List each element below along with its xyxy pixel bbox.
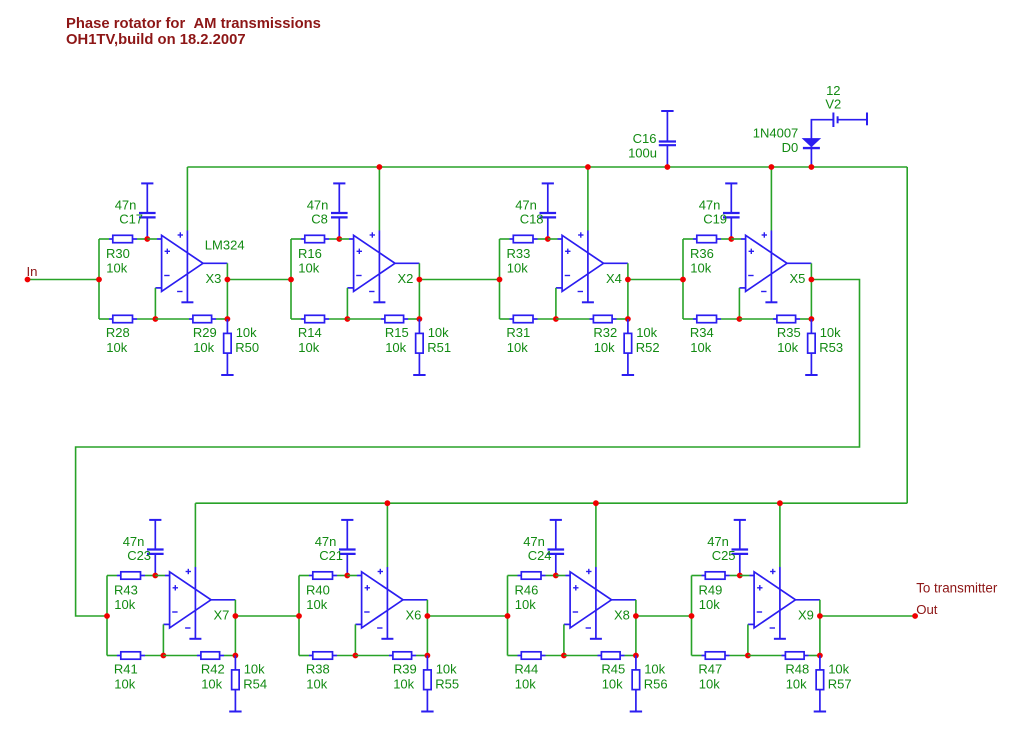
wire: -in node to R48 [748, 655, 782, 657]
junction: R40/C21/+in node [344, 573, 350, 579]
junction: X4 output node [625, 277, 631, 283]
wire: X7 -in node vertical [162, 624, 164, 655]
wire: X8 input to R44 [508, 655, 518, 657]
wire: op-amp X7 output (blue) [211, 599, 235, 601]
wire: V2 to diode (blue) [811, 120, 833, 167]
wire: X2 input to R16 [291, 238, 301, 240]
svg-text:R35: R35 [777, 325, 801, 340]
junction: X6 output node [425, 613, 431, 619]
node In terminal [25, 277, 31, 283]
junction: X8 input node [505, 613, 511, 619]
wire: X3 -in node vertical [154, 288, 156, 319]
resistor R47 [702, 652, 730, 659]
svg-text:10k: 10k [602, 677, 623, 692]
wire: X9 input to R47 [692, 655, 702, 657]
wire: R33 to node [538, 238, 548, 240]
wire: X4 output vertical [627, 263, 629, 319]
svg-text:10k: 10k [106, 340, 127, 355]
svg-text:10k: 10k [306, 677, 327, 692]
junction: X3 input node [96, 277, 102, 283]
wire: X6 input to R40 [299, 575, 309, 577]
junction: R49/C25/+in node [737, 573, 743, 579]
svg-text:R48: R48 [785, 662, 809, 677]
junction: -in/R28/R29 node [153, 316, 159, 322]
op-amp X6 power rail (blue) [386, 567, 388, 638]
capacitor C8 top terminal bar [333, 182, 345, 184]
capacitor C18 [540, 183, 557, 239]
svg-text:10k: 10k [201, 677, 222, 692]
junction: X2 supply tap on bus [377, 164, 383, 170]
op-amp X4 [556, 232, 604, 291]
wire: node to op-amp +in [347, 575, 357, 577]
svg-text:R49: R49 [699, 582, 723, 597]
svg-text:47n: 47n [307, 197, 329, 212]
svg-text:1N4007: 1N4007 [753, 126, 799, 141]
wire: X6 input node vertical [298, 576, 300, 656]
wire: X9 input to R49 [692, 575, 702, 577]
svg-text:X6: X6 [406, 608, 422, 623]
junction: X6 input node [296, 613, 302, 619]
resistor R57 [816, 656, 824, 711]
capacitor C25 top terminal bar [734, 519, 746, 521]
capacitor C19 [723, 183, 740, 239]
resistor R30 [109, 235, 137, 242]
junction: -in/R38/R39 node [353, 653, 359, 659]
wire: X4 input to R31 [500, 318, 510, 320]
svg-text:R14: R14 [298, 325, 322, 340]
svg-text:C24: C24 [528, 548, 552, 563]
resistor R14 [301, 315, 329, 322]
wire: R49 to node [730, 575, 740, 577]
junction: R35/R53/output node [809, 316, 815, 322]
junction: X5 input node [680, 277, 686, 283]
junction: -in/R31/R32 node [553, 316, 559, 322]
capacitor C21 [339, 520, 356, 576]
junction: -in/R41/R42 node [161, 653, 167, 659]
svg-text:V2: V2 [825, 96, 841, 111]
ground (R53) [805, 374, 817, 376]
wire: X5 input to R34 [683, 318, 693, 320]
svg-text:R38: R38 [306, 662, 330, 677]
wire: top V+ bus [187, 166, 907, 168]
wire: X7 input to R43 [107, 575, 117, 577]
wire: -in node to R45 [564, 655, 598, 657]
resistor R15 [381, 315, 408, 322]
svg-text:10k: 10k [699, 597, 720, 612]
svg-text:C17: C17 [119, 212, 143, 227]
svg-text:10k: 10k [393, 677, 414, 692]
wire: X7 output to X6 stage input [235, 615, 299, 617]
wire: bottom V+ bus [195, 502, 907, 504]
resistor R40 [309, 572, 337, 579]
wire: R47 to -in node [730, 655, 748, 657]
wire: X9 input node vertical [691, 576, 693, 656]
capacitor C24 top terminal bar [550, 519, 562, 521]
svg-text:R39: R39 [393, 662, 417, 677]
wire: R15 to output node [408, 318, 419, 320]
wire: op-amp X4 output (blue) [604, 262, 628, 264]
svg-text:10k: 10k [786, 677, 807, 692]
wire: R36 to node [721, 238, 731, 240]
svg-text:10k: 10k [244, 662, 265, 677]
svg-text:10k: 10k [306, 597, 327, 612]
wire: -in node to R35 [739, 318, 773, 320]
svg-text:R29: R29 [193, 325, 217, 340]
svg-text:R54: R54 [243, 677, 267, 692]
junction: R46/C24/+in node [553, 573, 559, 579]
wire: node to op-amp +in [339, 238, 349, 240]
svg-text:C16: C16 [633, 131, 657, 146]
wire: X6 output to X8 stage input [427, 615, 507, 617]
resistor R52 [624, 319, 632, 374]
svg-text:10k: 10k [428, 325, 449, 340]
wire: X4 output to X5 stage input [628, 279, 683, 281]
wire: X3 input to R28 [99, 318, 109, 320]
resistor R36 [693, 235, 721, 242]
svg-text:10k: 10k [507, 260, 528, 275]
junction: X6 supply tap on bus [385, 500, 391, 506]
ground (op-amp X8 V-) [590, 638, 602, 640]
junction: -in/R44/R45 node [561, 653, 567, 659]
wire: op-amp X6 V+ supply from bus [386, 503, 388, 567]
svg-text:X7: X7 [214, 608, 230, 623]
svg-text:Out: Out [916, 602, 938, 617]
svg-text:10k: 10k [594, 340, 615, 355]
wire: R28 to -in node [137, 318, 155, 320]
svg-text:R56: R56 [644, 677, 668, 692]
junction: X9 output node [817, 613, 823, 619]
svg-text:10k: 10k [515, 597, 536, 612]
svg-text:R34: R34 [690, 325, 714, 340]
op-amp X2 [347, 232, 395, 291]
svg-text:R32: R32 [593, 325, 617, 340]
wire: X3 output to X2 stage input [227, 279, 291, 281]
junction: X5 output node [809, 277, 815, 283]
svg-text:R45: R45 [601, 662, 625, 677]
junction: D0 on top bus [809, 164, 815, 170]
capacitor C17 [139, 183, 156, 239]
junction: R32/R52/output node [625, 316, 631, 322]
wire: R45 to output node [625, 655, 636, 657]
resistor R42 [197, 652, 224, 659]
wire: X2 -in node vertical [346, 288, 348, 319]
svg-text:10k: 10k [236, 325, 257, 340]
wire: X8 output to X9 stage input [636, 615, 692, 617]
wire: X6 -in node vertical [354, 624, 356, 655]
wire: X7 output vertical [234, 600, 236, 656]
wire: R30 to node [137, 238, 147, 240]
wire: R46 to node [546, 575, 556, 577]
wire: X3 input node vertical [98, 239, 100, 319]
svg-text:C8: C8 [311, 212, 328, 227]
wire: R31 to -in node [538, 318, 556, 320]
svg-text:10k: 10k [106, 260, 127, 275]
capacitor C21 top terminal bar [341, 519, 353, 521]
capacitor C24 [548, 520, 565, 576]
wire: X6 output vertical [426, 600, 428, 656]
wire: -in node to R42 [163, 655, 197, 657]
wire: X8 input node vertical [507, 576, 509, 656]
ground (op-amp X6 V-) [381, 638, 393, 640]
capacitor C17 top terminal bar [141, 182, 153, 184]
op-amp X5 [739, 232, 787, 291]
diode D0 [803, 139, 820, 149]
svg-text:47n: 47n [707, 534, 729, 549]
resistor R49 [702, 572, 730, 579]
wire: X5 -in node vertical [738, 288, 740, 319]
svg-text:10k: 10k [193, 340, 214, 355]
wire: X4 input node vertical [499, 239, 501, 319]
wire: X4 -in node vertical [555, 288, 557, 319]
op-amp X7 power rail (blue) [194, 567, 196, 638]
svg-text:10k: 10k [777, 340, 798, 355]
junction: X8 supply tap on bus [593, 500, 599, 506]
wire: R35 to output node [800, 318, 811, 320]
capacitor C8 [331, 183, 348, 239]
junction: R16/C8/+in node [336, 236, 342, 242]
resistor R48 [782, 652, 809, 659]
svg-text:R55: R55 [435, 677, 459, 692]
svg-text:R50: R50 [235, 340, 259, 355]
svg-text:10k: 10k [820, 325, 841, 340]
op-amp X7 [163, 569, 211, 628]
junction: X2 output node [417, 277, 423, 283]
op-amp X2 power rail (blue) [378, 231, 380, 302]
resistor R39 [389, 652, 416, 659]
capacitor C16 top terminal bar [661, 110, 673, 112]
resistor R34 [693, 315, 721, 322]
wire: node to op-amp +in [147, 238, 157, 240]
wire: X3 output vertical [226, 263, 228, 319]
resistor R29 [189, 315, 216, 322]
svg-text:47n: 47n [315, 534, 337, 549]
svg-text:100u: 100u [628, 145, 657, 160]
op-amp X9 [748, 569, 796, 628]
wire: X2 input to R14 [291, 318, 301, 320]
junction: -in/R14/R15 node [345, 316, 351, 322]
wire: R43 to node [145, 575, 155, 577]
svg-text:C23: C23 [127, 548, 151, 563]
svg-text:R42: R42 [201, 662, 225, 677]
svg-text:R33: R33 [507, 246, 531, 261]
capacitor C18 top terminal bar [542, 182, 554, 184]
resistor R50 [224, 319, 232, 374]
junction: R45/R56/output node [633, 653, 639, 659]
svg-text:C21: C21 [319, 548, 343, 563]
junction: R29/R50/output node [225, 316, 231, 322]
svg-text:R53: R53 [819, 340, 843, 355]
voltage source V2 battery [833, 113, 867, 128]
wire: X8 -in node vertical [563, 624, 565, 655]
svg-text:10k: 10k [690, 260, 711, 275]
wire: X8 input to R46 [508, 575, 518, 577]
junction: -in/R47/R48 node [745, 653, 751, 659]
junction: X4 supply tap on bus [585, 164, 591, 170]
junction: R36/C19/+in node [728, 236, 734, 242]
junction: X7 output node [233, 613, 239, 619]
wire: R44 to -in node [546, 655, 564, 657]
resistor R46 [518, 572, 546, 579]
wire: R39 to output node [416, 655, 427, 657]
svg-text:10k: 10k [114, 677, 135, 692]
wire: X8 output vertical [635, 600, 637, 656]
ground (R54) [229, 711, 241, 713]
wire: X9 output vertical [819, 600, 821, 656]
svg-text:X2: X2 [398, 271, 414, 286]
wire: X6 input to R38 [299, 655, 309, 657]
ground (R55) [421, 711, 433, 713]
op-amp X3 [155, 232, 203, 291]
svg-text:R16: R16 [298, 246, 322, 261]
capacitor C23 top terminal bar [149, 519, 161, 521]
svg-text:R51: R51 [427, 340, 451, 355]
wire: right bus drop (top bus to bottom bus) [906, 167, 908, 503]
junction: X3 output node [225, 277, 231, 283]
ground (R51) [413, 374, 425, 376]
resistor R55 [424, 656, 432, 711]
op-amp X3 power rail (blue) [186, 231, 188, 302]
wire: input [28, 279, 100, 281]
svg-text:10k: 10k [114, 597, 135, 612]
wire: op-amp X9 output (blue) [796, 599, 820, 601]
svg-text:R28: R28 [106, 325, 130, 340]
svg-text:X5: X5 [790, 271, 806, 286]
svg-text:10k: 10k [436, 662, 457, 677]
ground (R57) [814, 711, 826, 713]
junction: C16 on top bus [665, 164, 671, 170]
svg-text:10k: 10k [699, 677, 720, 692]
wire: X2 output vertical [418, 263, 420, 319]
junction: R42/R54/output node [233, 653, 239, 659]
resistor R35 [773, 315, 800, 322]
op-amp X9 power rail (blue) [779, 567, 781, 638]
wire: -in node to R39 [355, 655, 389, 657]
ground (op-amp X4 V-) [582, 301, 594, 303]
svg-text:R52: R52 [636, 340, 660, 355]
wire: op-amp X7 V+ supply from bus [194, 503, 196, 567]
capacitor C16 [659, 111, 676, 167]
svg-text:OH1TV,build on 18.2.2007: OH1TV,build on 18.2.2007 [66, 32, 246, 48]
svg-text:10k: 10k [644, 662, 665, 677]
wire: op-amp X5 output (blue) [787, 262, 811, 264]
resistor R54 [232, 656, 240, 711]
resistor R38 [309, 652, 337, 659]
svg-text:C18: C18 [520, 212, 544, 227]
resistor R56 [632, 656, 640, 711]
junction: R15/R51/output node [417, 316, 423, 322]
ground (R56) [630, 711, 642, 713]
svg-text:47n: 47n [123, 534, 145, 549]
ground (op-amp X5 V-) [765, 301, 777, 303]
svg-text:R47: R47 [698, 662, 722, 677]
junction: X9 input node [689, 613, 695, 619]
resistor R31 [510, 315, 538, 322]
svg-text:10k: 10k [507, 340, 528, 355]
resistor R32 [590, 315, 617, 322]
ground (R52) [622, 374, 634, 376]
op-amp X4 power rail (blue) [587, 231, 589, 302]
svg-text:R36: R36 [690, 246, 714, 261]
ground (op-amp X9 V-) [774, 638, 786, 640]
wire: -in node to R32 [556, 318, 590, 320]
op-amp X6 [355, 569, 403, 628]
resistor R33 [510, 235, 538, 242]
wire: X5 input node vertical [682, 239, 684, 319]
resistor R28 [109, 315, 137, 322]
junction: X8 output node [633, 613, 639, 619]
wire: R42 to output node [224, 655, 235, 657]
wire: R14 to -in node [329, 318, 347, 320]
wire: op-amp X8 V+ supply from bus [595, 503, 597, 567]
svg-text:10k: 10k [298, 260, 319, 275]
ground (op-amp X2 V-) [373, 301, 385, 303]
wire: op-amp X6 output (blue) [403, 599, 427, 601]
svg-text:R31: R31 [506, 325, 530, 340]
junction: R33/C18/+in node [545, 236, 551, 242]
ground (op-amp X7 V-) [189, 638, 201, 640]
resistor R44 [518, 652, 546, 659]
junction: R39/R55/output node [425, 653, 431, 659]
svg-text:47n: 47n [115, 197, 137, 212]
wire: X5 output vertical [810, 263, 812, 319]
wire: op-amp X3 output (blue) [203, 262, 227, 264]
resistor R45 [598, 652, 625, 659]
wire: -in node to R29 [155, 318, 189, 320]
wire: X7 input node vertical [106, 576, 108, 656]
wire: X9 output to Out terminal [820, 615, 915, 617]
svg-text:X3: X3 [206, 271, 222, 286]
svg-text:Phase rotator for AM transmis: Phase rotator for AM transmissions [66, 16, 321, 32]
resistor R41 [117, 652, 145, 659]
wire: R34 to -in node [721, 318, 739, 320]
wire: X2 output to X4 stage input [419, 279, 499, 281]
svg-text:R46: R46 [515, 582, 539, 597]
wire: X4 input to R33 [500, 238, 510, 240]
wire: op-amp X4 V+ supply from bus [587, 167, 589, 231]
ground (R50) [221, 374, 233, 376]
ground (op-amp X3 V-) [181, 301, 193, 303]
junction: -in/R34/R35 node [737, 316, 743, 322]
svg-text:10k: 10k [690, 340, 711, 355]
wire: X2 input node vertical [290, 239, 292, 319]
wire: R41 to -in node [145, 655, 163, 657]
wire: node to op-amp +in [740, 575, 750, 577]
svg-text:C19: C19 [703, 212, 727, 227]
wire: op-amp X3 V+ supply from bus [186, 167, 188, 231]
wire: node to op-amp +in [548, 238, 558, 240]
wire: op-amp X8 output (blue) [612, 599, 636, 601]
wire: node to op-amp +in [731, 238, 741, 240]
wire: X9 -in node vertical [747, 624, 749, 655]
wire: op-amp X2 V+ supply from bus [378, 167, 380, 231]
capacitor C23 [147, 520, 164, 576]
svg-text:R43: R43 [114, 582, 138, 597]
resistor R53 [808, 319, 816, 374]
junction: R43/C23/+in node [152, 573, 158, 579]
junction: X7 input node [104, 613, 110, 619]
junction: X9 supply tap on bus [777, 500, 783, 506]
svg-text:X4: X4 [606, 271, 622, 286]
wire: X5 input to R36 [683, 238, 693, 240]
capacitor C19 top terminal bar [725, 182, 737, 184]
wire: X3 input to R30 [99, 238, 109, 240]
wire: node to op-amp +in [556, 575, 566, 577]
svg-text:R41: R41 [114, 662, 138, 677]
junction: R30/C17/+in node [144, 236, 150, 242]
junction: R48/R57/output node [817, 653, 823, 659]
op-amp X8 [564, 569, 612, 628]
svg-text:47n: 47n [515, 197, 537, 212]
